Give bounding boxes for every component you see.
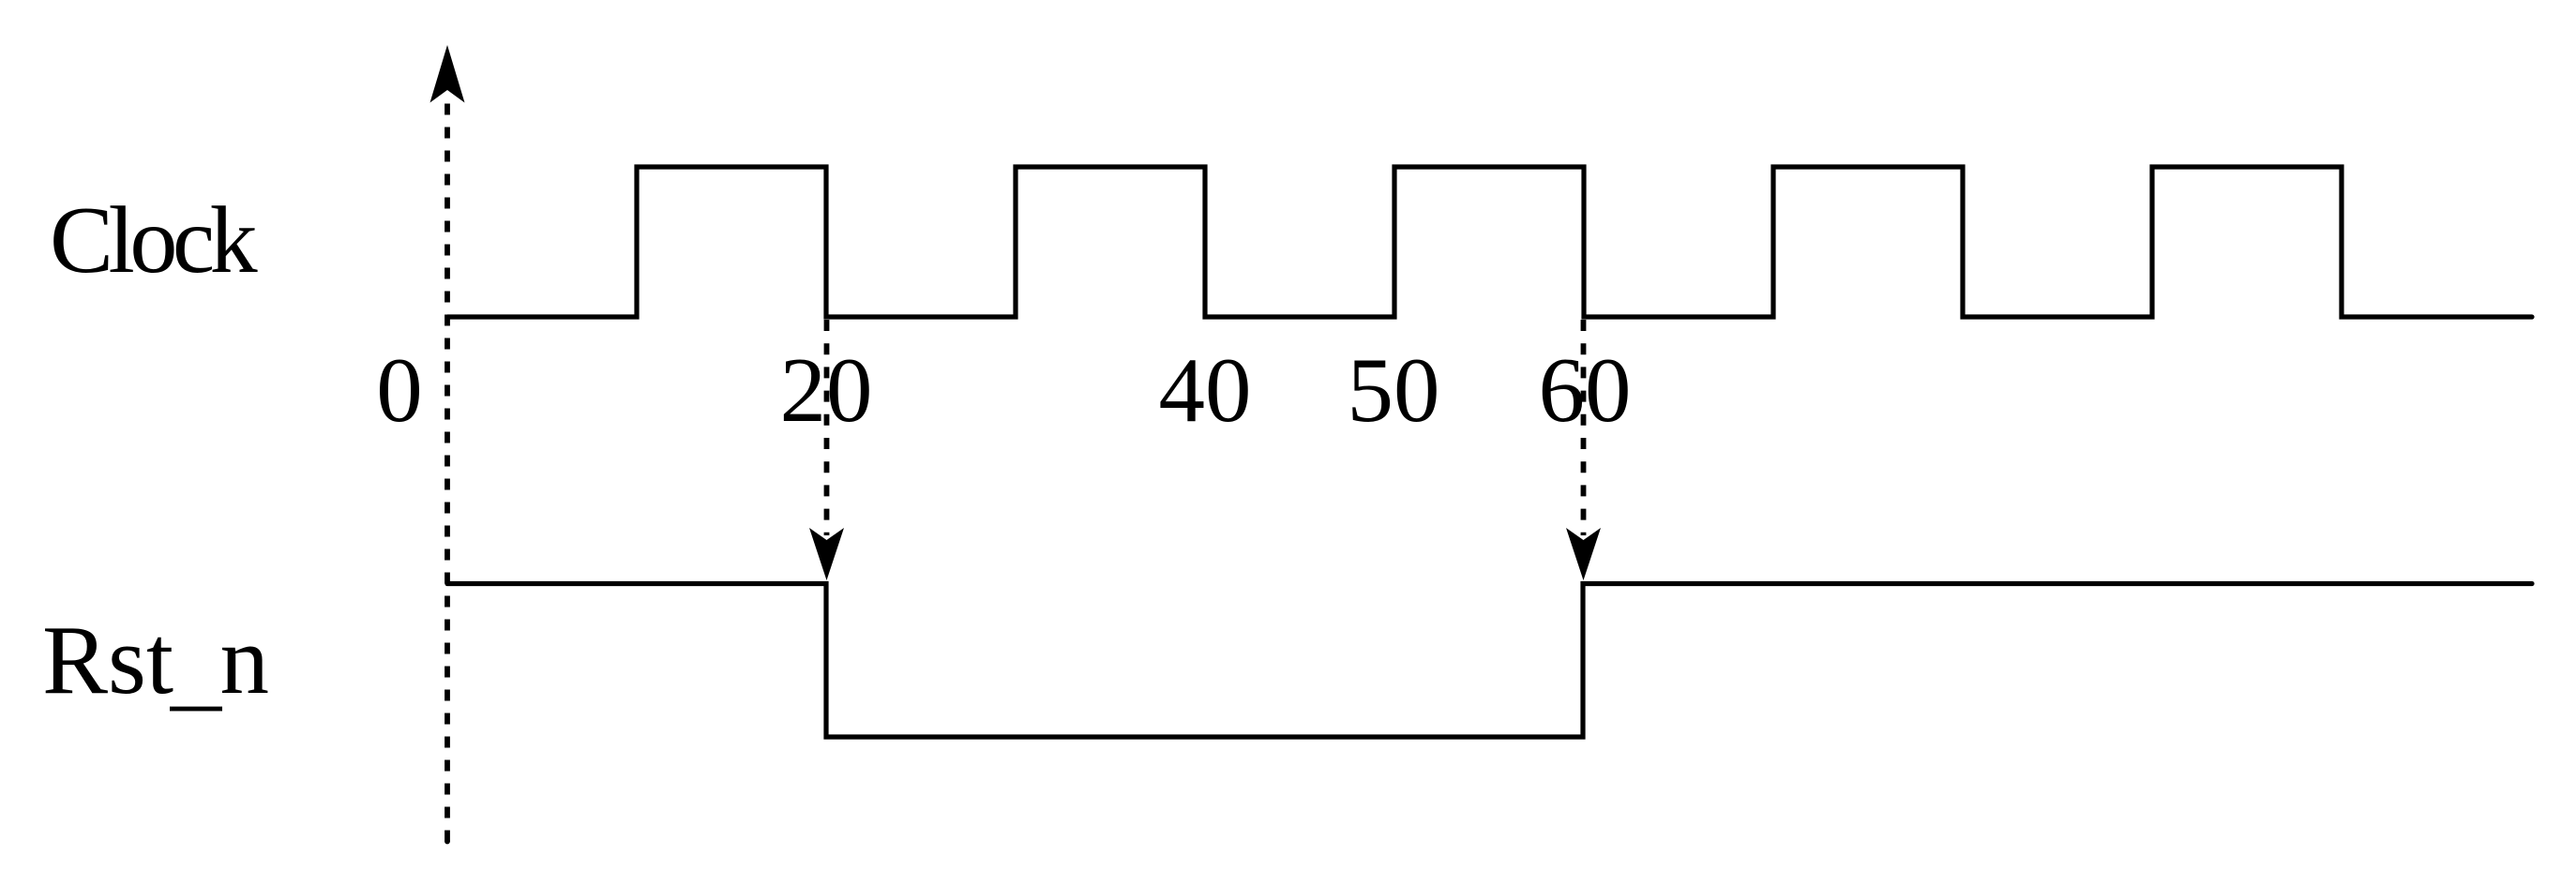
svg-text:0: 0 [376, 339, 423, 442]
svg-text:n: n [220, 605, 270, 714]
svg-text:20: 20 [780, 339, 873, 442]
svg-text:40: 40 [1159, 339, 1252, 442]
svg-text:50: 50 [1348, 339, 1440, 442]
svg-text:60: 60 [1539, 339, 1632, 442]
svg-text:Rst: Rst [42, 605, 173, 714]
svg-text:Clock: Clock [50, 188, 258, 293]
